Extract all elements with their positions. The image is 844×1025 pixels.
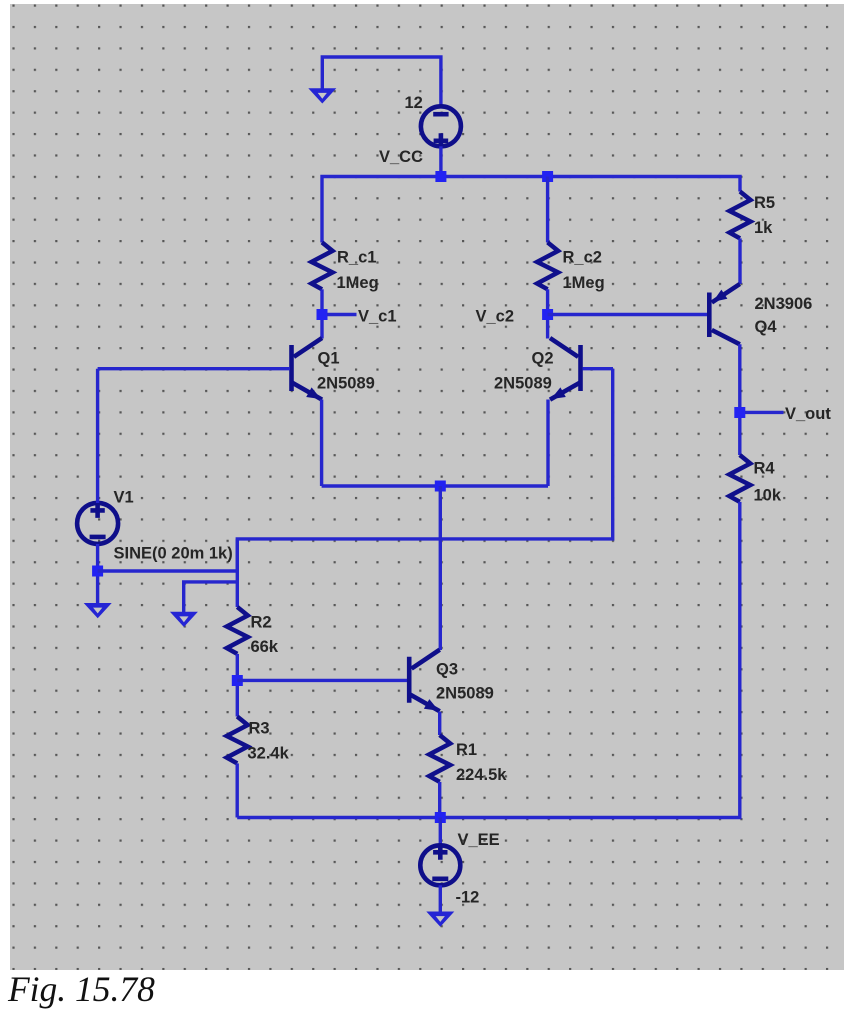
V1 minus sign — [90, 535, 106, 540]
ground (top-left) — [308, 88, 336, 103]
wire Q3 base — [237, 679, 407, 682]
wire V1 bottom to ground — [96, 544, 99, 604]
svg-text:Q2: Q2 — [532, 350, 554, 368]
V_CC source minus sign — [433, 112, 448, 117]
svg-text:1Meg: 1Meg — [563, 274, 605, 292]
transistor Q2 — [550, 338, 581, 400]
wire Q2 base to right — [583, 367, 614, 370]
svg-text:R_c2: R_c2 — [563, 249, 602, 267]
V_EE minus sign — [432, 876, 448, 881]
wire R5 to Q4 emitter — [738, 238, 741, 284]
svg-text:Q4: Q4 — [755, 318, 778, 336]
node bottom rail / V_EE — [435, 812, 446, 823]
resistor R_c1 — [312, 242, 333, 289]
wire tail to Q3 collector — [439, 486, 442, 650]
wire R1 to bottom rail — [438, 782, 441, 818]
svg-text:32.4k: 32.4k — [248, 745, 290, 763]
svg-text:2N5089: 2N5089 — [494, 375, 552, 393]
svg-text:224.5k: 224.5k — [456, 766, 507, 784]
wire R_c2 to Q2 collector — [546, 289, 549, 338]
svg-text:V1: V1 — [114, 489, 134, 507]
V1 plus sign — [90, 503, 104, 518]
svg-text:2N3906: 2N3906 — [755, 295, 813, 313]
svg-text:10k: 10k — [754, 487, 782, 505]
wire V1 node to the right — [98, 569, 238, 572]
ground (near R2) riser — [184, 582, 238, 613]
svg-text:Fig. 15.78: Fig. 15.78 — [7, 969, 155, 1009]
svg-text:1Meg: 1Meg — [337, 274, 379, 292]
V_EE plus sign — [433, 845, 447, 860]
svg-text:-12: -12 — [456, 889, 480, 907]
transistor Q3 — [409, 650, 440, 712]
wire down to R2 — [236, 539, 239, 607]
resistor R3 — [227, 717, 248, 764]
svg-text:1k: 1k — [754, 219, 773, 237]
wire V_out stub — [745, 411, 784, 414]
wire Q1 base — [98, 367, 290, 370]
wire V_EE to ground — [439, 885, 442, 912]
top rail wire — [322, 177, 740, 243]
svg-text:66k: 66k — [251, 638, 279, 656]
svg-text:V_EE: V_EE — [458, 831, 500, 849]
svg-text:V_out: V_out — [785, 405, 831, 423]
resistor R4 — [729, 455, 750, 502]
voltage source V1 — [77, 503, 118, 544]
resistor R1 — [429, 735, 450, 782]
svg-text:SINE(0 20m 1k): SINE(0 20m 1k) — [114, 545, 233, 563]
resistor R5 — [730, 192, 751, 239]
ground (near R2) — [170, 612, 198, 627]
wire up and right to Q2 base net — [237, 369, 612, 571]
wire source to rail — [439, 146, 442, 176]
wire V_c2 to Q4 base — [548, 313, 709, 316]
svg-text:V_c2: V_c2 — [476, 308, 515, 326]
svg-text:R5: R5 — [754, 194, 775, 212]
transistor Q4 (PNP) — [709, 284, 740, 344]
wire rail to V_EE source — [439, 818, 442, 846]
wire R4 down to bottom rail — [237, 502, 740, 818]
wire top-left to supply — [322, 57, 441, 107]
svg-text:12: 12 — [405, 94, 423, 112]
voltage source V_EE — [420, 845, 460, 885]
transistor Q1 — [292, 338, 323, 400]
wire R3 to bottom rail — [235, 763, 238, 817]
node V_out — [734, 407, 745, 418]
ground (bottom) — [426, 912, 454, 927]
wire Q2 emitter down — [546, 400, 549, 487]
resistor R2 — [227, 607, 248, 654]
svg-text:R4: R4 — [754, 460, 776, 478]
svg-text:2N5089: 2N5089 — [436, 685, 494, 703]
svg-text:Q3: Q3 — [436, 661, 458, 679]
node at rail / R_c2 branch — [542, 171, 553, 182]
wire Q4 collector down — [738, 344, 741, 455]
ground (below V1) — [84, 603, 112, 618]
svg-text:R1: R1 — [456, 741, 477, 759]
node V_c2 — [542, 309, 553, 320]
node tail — [435, 481, 446, 492]
node V_c1 — [317, 309, 328, 320]
svg-text:V_CC: V_CC — [379, 148, 423, 166]
svg-text:2N5089: 2N5089 — [317, 375, 375, 393]
svg-text:Q1: Q1 — [318, 350, 340, 368]
wire V_c1 stub — [327, 313, 357, 316]
svg-text:R2: R2 — [251, 614, 272, 632]
wire R2 to node — [236, 654, 239, 717]
wire Q3 emitter to R1 — [438, 712, 441, 735]
node R2/R3/Q3 base — [232, 675, 243, 686]
V_CC source plus sign — [434, 133, 449, 148]
resistor R_c2 — [537, 242, 558, 289]
wire R_c1 to Q1 collector — [320, 289, 323, 338]
wire Q1 emitter down — [320, 400, 323, 487]
svg-text:R_c1: R_c1 — [337, 249, 376, 267]
node at V_CC rail / source — [435, 171, 446, 182]
voltage source V_CC 12V circle — [421, 106, 461, 146]
node V1 minus — [92, 566, 103, 577]
tail wire joining emitters — [322, 484, 548, 487]
svg-text:R3: R3 — [249, 720, 270, 738]
svg-text:V_c1: V_c1 — [358, 308, 397, 326]
wire rail to R_c2 — [546, 177, 549, 243]
wire V1 top to Q1 base — [96, 369, 99, 503]
